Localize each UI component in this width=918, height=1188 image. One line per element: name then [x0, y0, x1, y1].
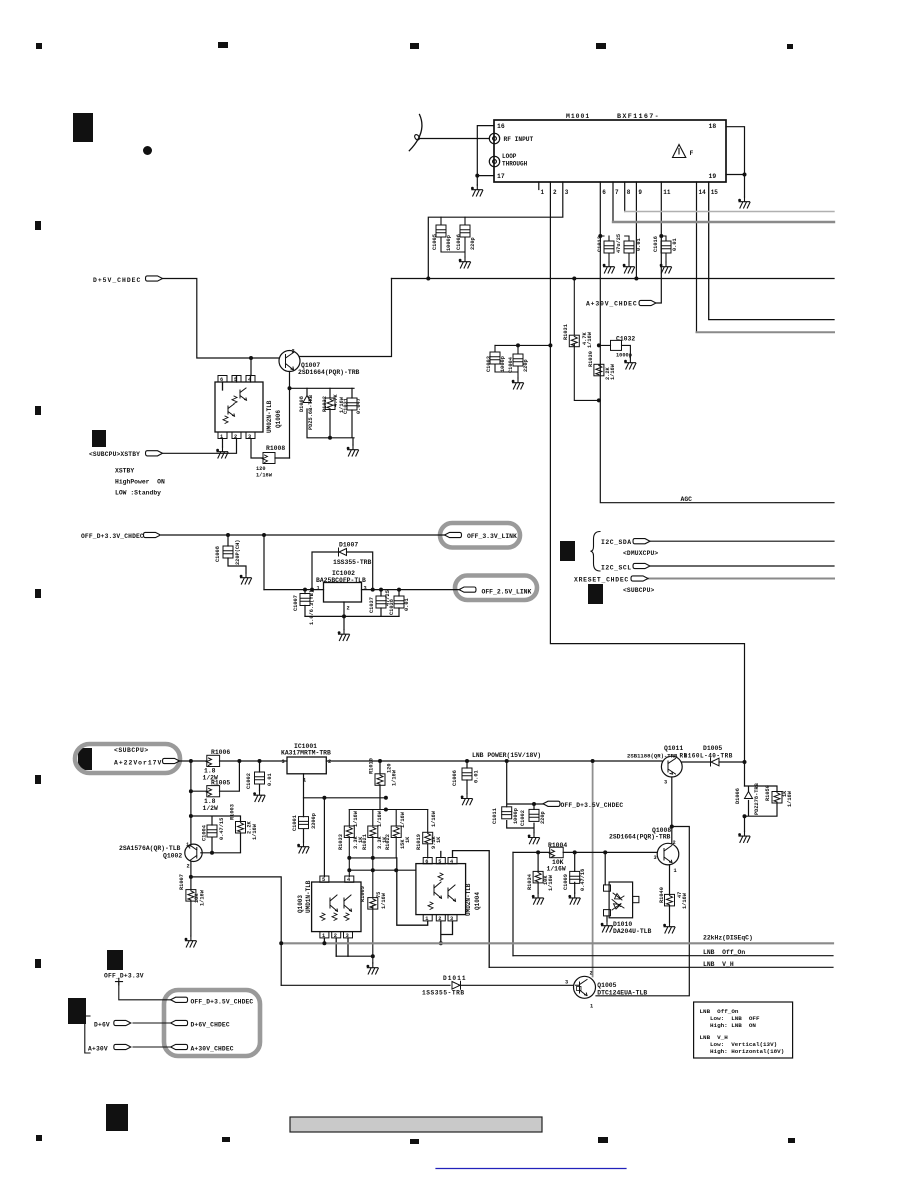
svg-text:1.0/6.3(YB): 1.0/6.3(YB) [309, 590, 315, 625]
svg-text:5: 5 [322, 877, 325, 883]
svg-text:PDZ5.6B-TRB: PDZ5.6B-TRB [308, 394, 314, 430]
svg-text:OFF_D+3.5V_CHDEC: OFF_D+3.5V_CHDEC [191, 998, 254, 1005]
svg-text:Q1011: Q1011 [664, 745, 683, 752]
svg-text:0.01: 0.01 [636, 238, 642, 251]
svg-text:2SD1664(PQR)-TRB: 2SD1664(PQR)-TRB [298, 369, 360, 376]
svg-text:R1050: R1050 [765, 785, 771, 801]
svg-text:C1003: C1003 [486, 356, 492, 372]
svg-text:1/16W: 1/16W [252, 823, 258, 840]
svg-text:R1022: R1022 [385, 834, 391, 850]
svg-text:C1016: C1016 [653, 236, 659, 252]
svg-text:1/16W: 1/16W [548, 874, 554, 891]
svg-text:D1008: D1008 [299, 396, 305, 412]
svg-text:Q1002: Q1002 [163, 852, 182, 859]
svg-text:2: 2 [187, 864, 190, 870]
svg-text:R1010: R1010 [369, 758, 375, 774]
svg-text:I2C_SCL: I2C_SCL [601, 564, 632, 571]
svg-text:3: 3 [664, 780, 667, 786]
svg-text:D+6V_CHDEC: D+6V_CHDEC [191, 1021, 230, 1028]
svg-text:R1005: R1005 [211, 779, 230, 786]
svg-text:D1007: D1007 [339, 542, 358, 549]
svg-text:6: 6 [425, 859, 428, 865]
svg-text:D+5V_CHDEC: D+5V_CHDEC [93, 277, 141, 284]
svg-text:Q1003: Q1003 [297, 895, 304, 913]
svg-text:17: 17 [497, 173, 505, 180]
svg-text:D1005: D1005 [703, 745, 722, 752]
svg-text:1: 1 [322, 933, 325, 939]
svg-text:1000p: 1000p [513, 808, 519, 824]
svg-text:C1006: C1006 [456, 234, 462, 250]
svg-text:C1038: C1038 [389, 599, 395, 615]
svg-text:R1031: R1031 [563, 324, 569, 340]
svg-text:R1008: R1008 [266, 445, 285, 452]
svg-text:Q1007: Q1007 [301, 362, 320, 369]
svg-text:C1032: C1032 [616, 336, 635, 343]
svg-text:HighPower ON: HighPower ON [115, 479, 165, 486]
svg-text:R1004: R1004 [548, 842, 567, 849]
svg-text:I2C_SDA: I2C_SDA [601, 539, 632, 546]
svg-text:2: 2 [673, 840, 676, 846]
svg-text:1SS355-TRB: 1SS355-TRB [333, 559, 372, 566]
svg-text:1/16W: 1/16W [353, 810, 359, 827]
svg-text:1/2W: 1/2W [203, 805, 219, 812]
svg-text:C1007: C1007 [293, 595, 299, 611]
svg-text:3: 3 [282, 759, 285, 765]
svg-text:1/16W: 1/16W [787, 790, 793, 807]
svg-text:High: Horizontal(18V): High: Horizontal(18V) [710, 1048, 784, 1055]
svg-text:C1002: C1002 [520, 810, 526, 826]
svg-text:220p: 220p [523, 359, 529, 372]
svg-text:3: 3 [248, 434, 251, 440]
svg-text:1: 1 [317, 586, 320, 592]
svg-text:C1008: C1008 [215, 546, 221, 562]
svg-text:3: 3 [346, 933, 349, 939]
svg-text:Low: Vertical(13V): Low: Vertical(13V) [710, 1041, 777, 1048]
svg-text:2: 2 [590, 971, 593, 977]
svg-text:THROUGH: THROUGH [502, 161, 528, 168]
svg-text:2: 2 [328, 759, 331, 765]
svg-text:1/16W: 1/16W [381, 892, 387, 909]
svg-text:C1004: C1004 [202, 824, 208, 841]
svg-text:A+30V_CHDEC: A+30V_CHDEC [191, 1045, 234, 1052]
svg-text:D1010: D1010 [613, 921, 632, 928]
svg-text:<DMUXCPU>: <DMUXCPU> [623, 550, 658, 557]
svg-text:<SUBCPU>: <SUBCPU> [623, 587, 655, 594]
svg-text:C1009: C1009 [563, 874, 569, 890]
svg-text:Low: LNB OFF: Low: LNB OFF [710, 1015, 760, 1022]
svg-text:OFF_D+3.3V: OFF_D+3.3V [104, 973, 144, 980]
svg-text:1/16W: 1/16W [587, 331, 593, 348]
svg-text:1K: 1K [436, 836, 442, 843]
svg-text:2: 2 [347, 606, 350, 612]
svg-text:RF INPUT: RF INPUT [504, 136, 534, 143]
svg-text:D+6V: D+6V [94, 1021, 110, 1028]
svg-text:220P(CH): 220P(CH) [235, 540, 241, 565]
svg-text:C1001: C1001 [292, 815, 298, 831]
svg-text:1000p: 1000p [500, 356, 506, 372]
svg-text:1: 1 [220, 434, 223, 440]
svg-text:3: 3 [364, 586, 367, 592]
svg-text:A+30V_CHDEC: A+30V_CHDEC [586, 301, 638, 308]
svg-text:C1011: C1011 [492, 808, 498, 824]
svg-text:0.47/15: 0.47/15 [219, 818, 225, 840]
svg-text:19: 19 [709, 173, 717, 180]
svg-text:1.8: 1.8 [204, 768, 216, 775]
svg-text:C1006: C1006 [452, 770, 458, 786]
svg-text:47u/25: 47u/25 [616, 234, 622, 253]
svg-text:R1003: R1003 [230, 804, 236, 820]
svg-text:3300p: 3300p [311, 813, 317, 829]
svg-text:9: 9 [638, 189, 642, 196]
svg-text:1/16W: 1/16W [682, 892, 688, 909]
svg-text:OFF_D+3.3V_CHDEC: OFF_D+3.3V_CHDEC [81, 533, 144, 540]
svg-text:R1007: R1007 [179, 874, 185, 890]
svg-text:M1001: M1001 [566, 113, 590, 120]
svg-text:C1037: C1037 [369, 597, 375, 613]
svg-text:R1034: R1034 [527, 873, 533, 890]
svg-text:11: 11 [663, 189, 671, 196]
svg-text:C1012: C1012 [597, 236, 603, 252]
svg-text:0.01: 0.01 [474, 770, 480, 783]
svg-text:<SUBCPU>: <SUBCPU> [114, 747, 149, 754]
svg-text:OFF_2.5V_LINK: OFF_2.5V_LINK [482, 588, 532, 595]
svg-text:LOW :Standby: LOW :Standby [115, 490, 161, 497]
svg-text:R1040: R1040 [659, 887, 665, 903]
svg-text:DTC124EUA-TLB: DTC124EUA-TLB [597, 989, 647, 996]
svg-text:LNB V_H: LNB V_H [700, 1034, 729, 1041]
svg-text:C1031: C1031 [343, 398, 349, 414]
svg-text:16: 16 [497, 123, 505, 130]
svg-text:<SUBCPU>XSTBY: <SUBCPU>XSTBY [89, 451, 140, 458]
svg-text:High: LNB ON: High: LNB ON [710, 1022, 756, 1029]
svg-text:R1019: R1019 [416, 834, 422, 850]
svg-text:A+30V: A+30V [88, 1045, 108, 1052]
svg-text:R1033: R1033 [338, 834, 344, 850]
svg-text:1000p: 1000p [616, 353, 632, 359]
svg-text:1/16W: 1/16W [400, 811, 406, 828]
svg-text:2: 2 [234, 434, 237, 440]
svg-text:1/16W: 1/16W [431, 810, 437, 827]
svg-text:1/16W: 1/16W [547, 866, 566, 873]
svg-text:0.01: 0.01 [267, 773, 273, 786]
svg-text:5: 5 [234, 377, 237, 383]
svg-text:120: 120 [256, 466, 266, 472]
svg-text:LNB V_H: LNB V_H [703, 961, 734, 968]
svg-text:2: 2 [553, 189, 557, 196]
svg-text:2: 2 [292, 349, 295, 355]
svg-text:XRESET_CHDEC: XRESET_CHDEC [574, 576, 629, 583]
svg-text:UMD2N-TLB: UMD2N-TLB [465, 883, 472, 916]
svg-text:6: 6 [602, 189, 606, 196]
svg-text:1/16W: 1/16W [392, 769, 398, 786]
svg-text:1SS355-TRB: 1SS355-TRB [422, 989, 465, 996]
svg-text:OFF_3.3V_LINK: OFF_3.3V_LINK [467, 533, 517, 540]
svg-text:C1004: C1004 [508, 356, 514, 373]
svg-text:1K: 1K [405, 836, 411, 843]
svg-text:LOOP: LOOP [502, 153, 517, 160]
svg-text:LNB Off_On: LNB Off_On [700, 1008, 739, 1015]
svg-text:UM02N-TLB: UM02N-TLB [266, 400, 273, 433]
svg-text:15: 15 [711, 189, 719, 196]
svg-text:220p: 220p [470, 237, 476, 250]
svg-text:2: 2 [334, 933, 337, 939]
svg-text:5: 5 [438, 859, 441, 865]
svg-text:2: 2 [438, 916, 441, 922]
svg-text:D1006: D1006 [735, 788, 741, 804]
svg-text:8: 8 [627, 189, 631, 196]
svg-text:R1032: R1032 [322, 396, 328, 412]
svg-text:Q1006: Q1006 [275, 410, 282, 428]
svg-text:LNB Off_On: LNB Off_On [703, 949, 745, 956]
svg-text:2SD1664(PQR)-TRB: 2SD1664(PQR)-TRB [609, 834, 671, 841]
svg-text:R1021: R1021 [362, 834, 368, 850]
svg-text:1.8: 1.8 [204, 798, 216, 805]
svg-text:R1030: R1030 [588, 351, 594, 367]
svg-text:22kHz(DISEqC): 22kHz(DISEqC) [703, 935, 753, 942]
svg-text:1/16W: 1/16W [256, 473, 273, 479]
svg-text:3: 3 [654, 855, 657, 861]
svg-text:UMD1N-TLB: UMD1N-TLB [305, 880, 312, 913]
svg-text:RB160L-40-TRB: RB160L-40-TRB [680, 753, 733, 760]
svg-text:DA204U-TLB: DA204U-TLB [613, 928, 652, 935]
svg-text:3: 3 [565, 189, 569, 196]
svg-text:3: 3 [565, 980, 568, 986]
svg-text:7: 7 [615, 189, 619, 196]
svg-text:A+22Vor17V: A+22Vor17V [114, 759, 162, 766]
svg-text:1000p: 1000p [446, 235, 452, 251]
svg-text:18: 18 [709, 123, 717, 130]
svg-text:Q1005: Q1005 [597, 982, 616, 989]
svg-text:220p: 220p [540, 811, 546, 824]
svg-text:1: 1 [186, 842, 189, 848]
svg-text:1/16W: 1/16W [610, 363, 616, 380]
svg-text:1/16W: 1/16W [377, 810, 383, 827]
svg-text:C1005: C1005 [432, 234, 438, 250]
svg-text:BA25BC0FP-TLB: BA25BC0FP-TLB [316, 577, 366, 584]
svg-text:D1011: D1011 [443, 975, 467, 982]
svg-text:BXF1167-: BXF1167- [617, 113, 660, 121]
svg-text:2: 2 [684, 754, 687, 760]
svg-text:XSTBY: XSTBY [115, 468, 134, 475]
svg-text:LNB POWER(15V/18V): LNB POWER(15V/18V) [472, 752, 541, 759]
svg-text:AGC: AGC [681, 496, 693, 503]
svg-text:1: 1 [674, 868, 677, 874]
svg-text:0.01: 0.01 [672, 238, 678, 251]
svg-text:0.01: 0.01 [404, 598, 410, 611]
svg-text:PDZ278-TRB: PDZ278-TRB [754, 782, 760, 815]
svg-text:Q1004: Q1004 [474, 892, 481, 910]
svg-text:C1002: C1002 [246, 773, 252, 789]
svg-text:1/16W: 1/16W [200, 889, 206, 906]
svg-text:2SB1188(QR)-TRB: 2SB1188(QR)-TRB [627, 753, 678, 760]
svg-text:1: 1 [590, 1004, 593, 1010]
svg-text:1: 1 [425, 916, 428, 922]
svg-text:KA317MRTM-TRB: KA317MRTM-TRB [281, 749, 331, 756]
svg-text:6: 6 [220, 377, 223, 383]
svg-text:R1006: R1006 [211, 749, 230, 756]
svg-text:14: 14 [699, 189, 707, 196]
svg-text:F: F [690, 150, 694, 157]
svg-text:2SA1576A(QR)-TLB: 2SA1576A(QR)-TLB [119, 845, 181, 852]
svg-text:0.47/16: 0.47/16 [580, 869, 586, 891]
svg-text:1: 1 [303, 778, 306, 784]
svg-text:0.047: 0.047 [356, 398, 362, 414]
svg-text:OFF_D+3.5V_CHDEC: OFF_D+3.5V_CHDEC [561, 802, 624, 809]
svg-text:1: 1 [541, 189, 545, 196]
svg-text:3: 3 [450, 916, 453, 922]
